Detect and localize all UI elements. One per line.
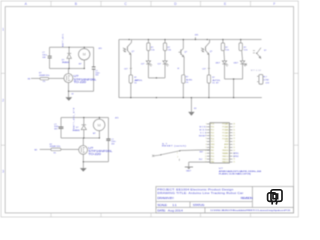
IC bottom description: [219, 167, 262, 175]
ground 0V arrow circuit3: [80, 168, 87, 172]
resistor R3 body: [129, 75, 132, 83]
resistor R1 body: [40, 78, 49, 80]
switch S1 power: [253, 48, 261, 59]
pin numbers left: [205, 124, 207, 164]
wire right cap branch: [93, 47, 95, 66]
net stub 4V5 on top rail: [194, 37, 196, 39]
reset switch S2: [152, 151, 179, 161]
LED D5: [222, 61, 228, 67]
battery connector J1: [259, 75, 263, 85]
wire led pair join (right): [225, 79, 243, 98]
wire right cap branch: [107, 118, 109, 139]
wire gate input: [40, 148, 51, 150]
wire left vertical: [118, 40, 120, 98]
wire top rail: [50, 46, 94, 48]
wire drain / source: [68, 69, 70, 74]
resistor R5 (divider 2): [164, 40, 166, 78]
switch labels: [162, 143, 203, 173]
DesignSpark logo: [268, 190, 282, 205]
junction dots: [83, 117, 100, 162]
wire mid rail: [61, 137, 99, 139]
resistor R7 body: [207, 75, 210, 83]
frame column ticks top: [51, 1, 251, 7]
resistor R8 (divider 3): [223, 40, 225, 80]
phototransistor Q5 (sensor 2): [201, 40, 210, 98]
motor M1 circle: [79, 49, 90, 60]
IC pins: [207, 124, 233, 162]
LED D6: [240, 61, 246, 67]
wire diode branch: [68, 47, 70, 53]
transistor Q4: [178, 40, 184, 98]
capacitor C3 plates: [59, 127, 64, 128]
wire left cap branch: [49, 47, 51, 55]
capacitor C1 plates: [48, 56, 52, 58]
motor M2 circle: [93, 119, 105, 131]
wire bottom: [83, 161, 108, 163]
resistor R9 (divider 4): [241, 40, 243, 80]
labels circuit3: [35, 117, 119, 154]
wire led pair join (left): [148, 77, 165, 79]
MOSFET Q2: [79, 146, 88, 155]
frame column ticks bottom: [51, 213, 251, 217]
wire mid rail: [50, 68, 85, 70]
pin numbers: [233, 124, 235, 164]
junction dots circuit2: [129, 39, 242, 98]
capacitor C2 plates (right): [92, 67, 96, 69]
capacitor C4 plates (right): [106, 139, 110, 141]
ground 0V arrow circuit1: [65, 97, 72, 101]
pin names inside: [211, 124, 216, 164]
wire reset to IC: [180, 149, 210, 152]
junction dots: [68, 47, 85, 92]
wire drain / source: [82, 138, 84, 146]
wire left cap branch: [60, 118, 62, 127]
resistor R6 body: [182, 75, 185, 83]
labels circuit1: [28, 48, 102, 96]
wire top rail: [119, 39, 262, 41]
diode D2: [81, 125, 86, 130]
sheet inner border: [5, 7, 293, 213]
wire bottom rail: [119, 97, 262, 99]
ground symbol at IC: [185, 167, 193, 170]
wire bottom: [69, 90, 94, 92]
phototransistor Q3 (sensor 1): [123, 40, 132, 98]
MOSFET Q1: [64, 74, 73, 83]
wire gnd to IC: [189, 162, 210, 167]
frame row ticks left: [1, 73, 5, 145]
diode D1: [67, 53, 72, 58]
resistor R4 (divider 1): [147, 40, 149, 78]
0V power arrow: [190, 98, 192, 113]
frame row numbers: [2, 27, 4, 173]
blue net labels right of IC: [233, 153, 238, 158]
blue net labels left of IC: [199, 127, 207, 138]
LED D3: [146, 61, 152, 67]
LED D4: [163, 61, 169, 67]
resistor R2 body: [51, 148, 61, 151]
wire gate input: [31, 77, 40, 79]
labels circuit2: [124, 47, 270, 110]
wire motor leads: [83, 47, 85, 48]
wire motor leads: [98, 118, 100, 120]
wire top rail: [61, 117, 108, 119]
frame column letters: [25, 2, 276, 6]
wire diode branch: [83, 118, 85, 125]
frame row ticks right: [294, 73, 299, 145]
